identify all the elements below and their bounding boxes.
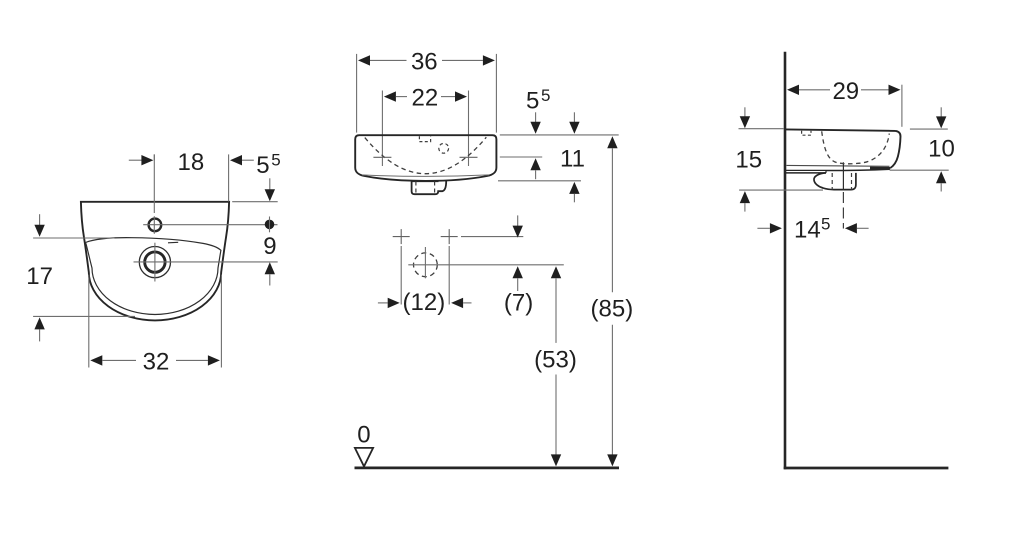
dimension 9 up arrow stem <box>269 274 271 285</box>
wall line <box>784 52 787 469</box>
wall bolt cross left <box>393 229 410 244</box>
trap hidden pipe left <box>415 182 417 195</box>
basin outer outline (top view) <box>81 202 229 321</box>
dimension 15 chain <box>744 107 746 117</box>
svg-text:5: 5 <box>821 215 830 234</box>
dimension 17 up arrow stem <box>39 329 41 341</box>
dimension 11 arrows chain <box>573 112 575 122</box>
dimension (85) chain <box>607 136 617 148</box>
drain outer circle <box>139 247 170 278</box>
dimension 29 line left <box>799 89 830 91</box>
dimension 5.5 arrows chain <box>535 112 537 122</box>
svg-text:32: 32 <box>143 348 170 375</box>
wall bolt cross right <box>441 229 458 244</box>
dimension 18 right tail <box>242 159 254 161</box>
interior bowl hidden line <box>365 137 487 174</box>
dimension 29 arrow right-pointing <box>889 85 901 95</box>
top edge reference line left of wall <box>739 128 784 130</box>
basin lip wedge <box>870 167 890 170</box>
dimension point dot <box>265 220 275 230</box>
svg-text:22: 22 <box>412 85 439 112</box>
bolt extension line left <box>400 246 402 305</box>
dimension 32 arrow left-pointing <box>90 355 102 365</box>
dimension (53) chain <box>551 266 561 278</box>
dimension 5.5 down arrow <box>265 189 275 201</box>
dimension 32 extension line left <box>88 275 90 368</box>
bracket top line <box>786 169 826 171</box>
dimension (12) left tail <box>378 302 388 304</box>
svg-text:10: 10 <box>928 136 955 163</box>
dimension 36 arrow left-pointing <box>358 55 370 65</box>
dimension 32 line right <box>176 359 208 361</box>
overflow slot hidden <box>419 136 430 141</box>
dimension 22 extension line left <box>381 91 383 167</box>
trap hidden pipe left <box>831 173 833 190</box>
dimension 36 line right <box>442 59 483 61</box>
dimension 17 down arrow stem <box>39 214 41 226</box>
drain centerline vertical <box>154 243 156 282</box>
dimension 32 extension line right <box>220 275 222 368</box>
svg-text:17: 17 <box>26 263 53 290</box>
bracket right end <box>825 170 827 173</box>
top edge reference line right <box>500 134 619 136</box>
dimension 36 extension line right <box>495 54 497 133</box>
basin bottom edge <box>826 169 890 170</box>
dimension 22 line right <box>441 96 455 98</box>
svg-text:5: 5 <box>256 152 269 179</box>
dimension 14.5 right tail <box>857 227 869 229</box>
dimension 29 line right <box>861 89 889 91</box>
bracket bottom reference line <box>739 189 823 191</box>
overflow hole hidden circle <box>439 143 449 153</box>
basin lip upper line <box>787 164 890 167</box>
dimension 32 line left <box>102 359 136 361</box>
svg-text:5: 5 <box>526 88 539 115</box>
dimension 18 arrow left-pointing <box>230 155 242 165</box>
lip level reference line right <box>890 169 949 171</box>
svg-text:5: 5 <box>271 151 280 170</box>
dimension 17 up arrow <box>34 317 44 329</box>
dimension 17 bottom reference line <box>33 315 135 317</box>
svg-text:11: 11 <box>560 145 585 172</box>
datum triangle <box>355 448 373 467</box>
dimension 18 extension line at hole center <box>153 154 155 160</box>
dimension (12) arrow right-pointing <box>388 298 400 308</box>
tap hole hidden (side) <box>802 131 811 136</box>
trap hidden pipe right <box>434 182 436 195</box>
trap top edge <box>412 180 439 182</box>
basin front outline <box>355 135 496 181</box>
dimension 29 arrow left-pointing <box>787 85 799 95</box>
faucet hole centerline vertical <box>153 154 155 213</box>
floor line (right view) <box>784 467 949 470</box>
dimension 32 arrow right-pointing <box>208 355 220 365</box>
basin side front face <box>890 131 900 168</box>
trap hidden pipe right <box>851 173 853 190</box>
rim tick mark <box>168 241 178 244</box>
dimension 22 extension line right <box>468 91 470 167</box>
dimension (7) chain <box>517 215 519 226</box>
fixing hole cross right <box>460 156 478 158</box>
reference line drain to right <box>134 261 278 263</box>
dimension 14.5 arrow left-pointing <box>845 223 857 233</box>
top edge reference line right <box>910 128 948 130</box>
svg-text:(53): (53) <box>534 347 577 374</box>
drain pipe centerline vertical <box>424 247 426 278</box>
drain level reference line <box>408 264 564 266</box>
dimension 22 line left <box>396 96 407 98</box>
trap side outline <box>814 173 856 190</box>
dimension (12) arrow left-pointing <box>451 298 463 308</box>
dimension 14.5 left tail <box>757 227 770 229</box>
drain centerline dashed <box>842 192 844 229</box>
drain pipe hidden circle <box>414 253 438 277</box>
dimension (12) right tail <box>463 302 471 304</box>
dimension 22 arrow right-pointing <box>455 91 467 101</box>
svg-text:36: 36 <box>411 48 438 75</box>
basin side top edge <box>786 129 896 131</box>
svg-text:(12): (12) <box>403 289 446 316</box>
dimension 9 up arrow <box>265 262 275 274</box>
bolt level reference line <box>461 236 523 238</box>
dimension 18 arrow right-pointing <box>141 155 153 165</box>
basin bottom reference line <box>498 180 581 182</box>
fixing hole level reference line <box>500 156 542 158</box>
top edge reference line <box>232 201 278 203</box>
reference line faucet hole to dot <box>143 224 277 226</box>
svg-text:5: 5 <box>541 86 550 105</box>
svg-text:(7): (7) <box>504 290 533 317</box>
dimension 17 top reference line <box>33 237 114 239</box>
dimension 5.5 down arrow stem <box>269 178 271 190</box>
basin inner rim outline (top view) <box>86 238 221 315</box>
svg-text:15: 15 <box>735 147 762 174</box>
svg-text:18: 18 <box>178 149 205 176</box>
dot stub line <box>269 217 271 233</box>
dimension 36 line left <box>370 59 407 61</box>
dimension 17 down arrow <box>34 225 44 237</box>
bolt extension line right <box>448 246 450 305</box>
faucet hole <box>149 219 162 232</box>
svg-text:14: 14 <box>794 216 821 243</box>
interior bowl hidden line (side) <box>822 131 890 163</box>
dimension 29 extension line <box>901 85 903 127</box>
basin front inner bottom line <box>362 175 489 177</box>
drain centerline solid <box>842 162 844 190</box>
svg-text:29: 29 <box>832 78 859 105</box>
svg-text:(85): (85) <box>591 296 634 323</box>
dimension 18 line left tail <box>129 159 142 161</box>
dimension 10 chain <box>940 107 942 117</box>
drain inner circle <box>145 252 165 272</box>
dimension 18 extension line at basin right edge <box>228 154 230 201</box>
floor line (middle view) <box>355 467 620 470</box>
dimension 36 extension line left <box>356 54 358 133</box>
svg-text:9: 9 <box>263 233 276 260</box>
trap front outline <box>412 181 447 195</box>
dimension 36 arrow right-pointing <box>483 55 495 65</box>
dimension 22 arrow left-pointing <box>384 91 396 101</box>
fixing hole cross left <box>373 156 391 158</box>
svg-text:0: 0 <box>357 422 370 449</box>
dimension 14.5 arrow right-pointing <box>770 223 782 233</box>
bracket bottom line <box>786 172 827 174</box>
